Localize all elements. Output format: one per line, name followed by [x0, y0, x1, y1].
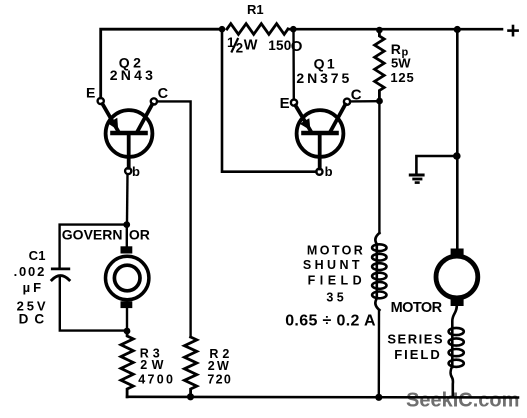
- svg-text:35: 35: [326, 291, 347, 305]
- wire bottom bus: [127, 395, 518, 398]
- svg-text:2W: 2W: [140, 358, 168, 372]
- svg-text:GOVERN: GOVERN: [62, 227, 123, 243]
- plus terminal: [509, 26, 518, 35]
- wire to ground: [416, 156, 456, 174]
- svg-text:µF: µF: [23, 280, 44, 295]
- wire Q2 base down to governor node: [126, 174, 129, 221]
- transistor Q1: [291, 99, 350, 175]
- svg-text:125: 125: [390, 70, 414, 85]
- svg-text:2N43: 2N43: [110, 67, 156, 83]
- wire C1 bottom down and right to R3 node: [60, 278, 124, 331]
- svg-text:R1: R1: [247, 2, 264, 17]
- node R2 bottom junction: [187, 393, 194, 400]
- svg-text:2: 2: [236, 41, 244, 56]
- wire Q1 collector to Rp bottom node: [350, 100, 377, 103]
- wire from R1 left junction down to Q1 base: [222, 29, 316, 172]
- svg-text:.002: .002: [14, 264, 47, 279]
- svg-text:SERIES: SERIES: [387, 331, 444, 346]
- inductor motor series field: [449, 306, 464, 397]
- wire from R1 right junction down to Q1 emitter: [292, 29, 295, 99]
- wire Rp bottom node down to shunt field: [378, 101, 380, 233]
- svg-text:C: C: [351, 87, 362, 104]
- svg-text:MOTOR: MOTOR: [307, 244, 365, 258]
- svg-text:E: E: [86, 85, 95, 101]
- node governor top junction: [123, 221, 130, 228]
- node shunt field bottom junction: [375, 394, 382, 401]
- inductor motor shunt field: [372, 233, 386, 310]
- capacitor C1: [52, 267, 69, 270]
- svg-text:FIELD: FIELD: [308, 273, 367, 287]
- svg-text:2W: 2W: [208, 359, 231, 373]
- node R1 left junction: [219, 26, 226, 33]
- svg-text:OR: OR: [129, 227, 150, 243]
- wire top bus from R1 right end to plus terminal: [288, 28, 502, 31]
- wire Q2 collector right then down to R2: [157, 101, 190, 337]
- svg-text:b: b: [325, 164, 333, 179]
- resistor R3: [121, 333, 133, 397]
- wire top-left from Q2 emitter up and right to R1: [101, 29, 222, 98]
- transistor Q2: [98, 98, 157, 174]
- node Rp top junction: [376, 27, 383, 34]
- svg-text:DC: DC: [19, 311, 50, 326]
- ground: [409, 175, 425, 183]
- svg-text:E: E: [280, 95, 290, 112]
- wire C1 branch: left and down: [60, 225, 127, 268]
- svg-text:O: O: [291, 38, 303, 55]
- svg-text:4700: 4700: [138, 373, 175, 387]
- node R1 right junction: [290, 26, 297, 33]
- svg-text:SHUNT: SHUNT: [303, 258, 363, 272]
- svg-text:C1: C1: [29, 248, 46, 263]
- governor: [106, 228, 149, 328]
- node Q1 collector / Rp bottom junction: [376, 98, 383, 105]
- node governor bottom / R3 top junction: [124, 328, 131, 335]
- node motor branch top junction: [454, 26, 461, 33]
- resistor R2: [184, 337, 196, 397]
- resistor R1: [227, 24, 288, 35]
- svg-text:150: 150: [268, 38, 291, 53]
- wire motor branch vertical: [456, 30, 459, 249]
- svg-text:FIELD: FIELD: [394, 347, 442, 362]
- resistor Rp: [375, 31, 385, 100]
- motor M1: [436, 249, 478, 307]
- svg-text:SeekIC.com: SeekIC.com: [406, 390, 519, 412]
- svg-text:720: 720: [207, 373, 232, 387]
- svg-text:5W: 5W: [391, 56, 411, 71]
- node ground junction: [453, 152, 461, 160]
- svg-text:b: b: [132, 164, 140, 179]
- svg-text:0.65 ÷ 0.2 A: 0.65 ÷ 0.2 A: [285, 313, 376, 330]
- svg-text:MOTOR: MOTOR: [391, 300, 443, 316]
- svg-text:2N375: 2N375: [296, 70, 352, 86]
- wire shunt field bottom to bottom bus: [378, 310, 381, 397]
- svg-text:W: W: [244, 38, 258, 54]
- svg-text:C: C: [158, 86, 169, 102]
